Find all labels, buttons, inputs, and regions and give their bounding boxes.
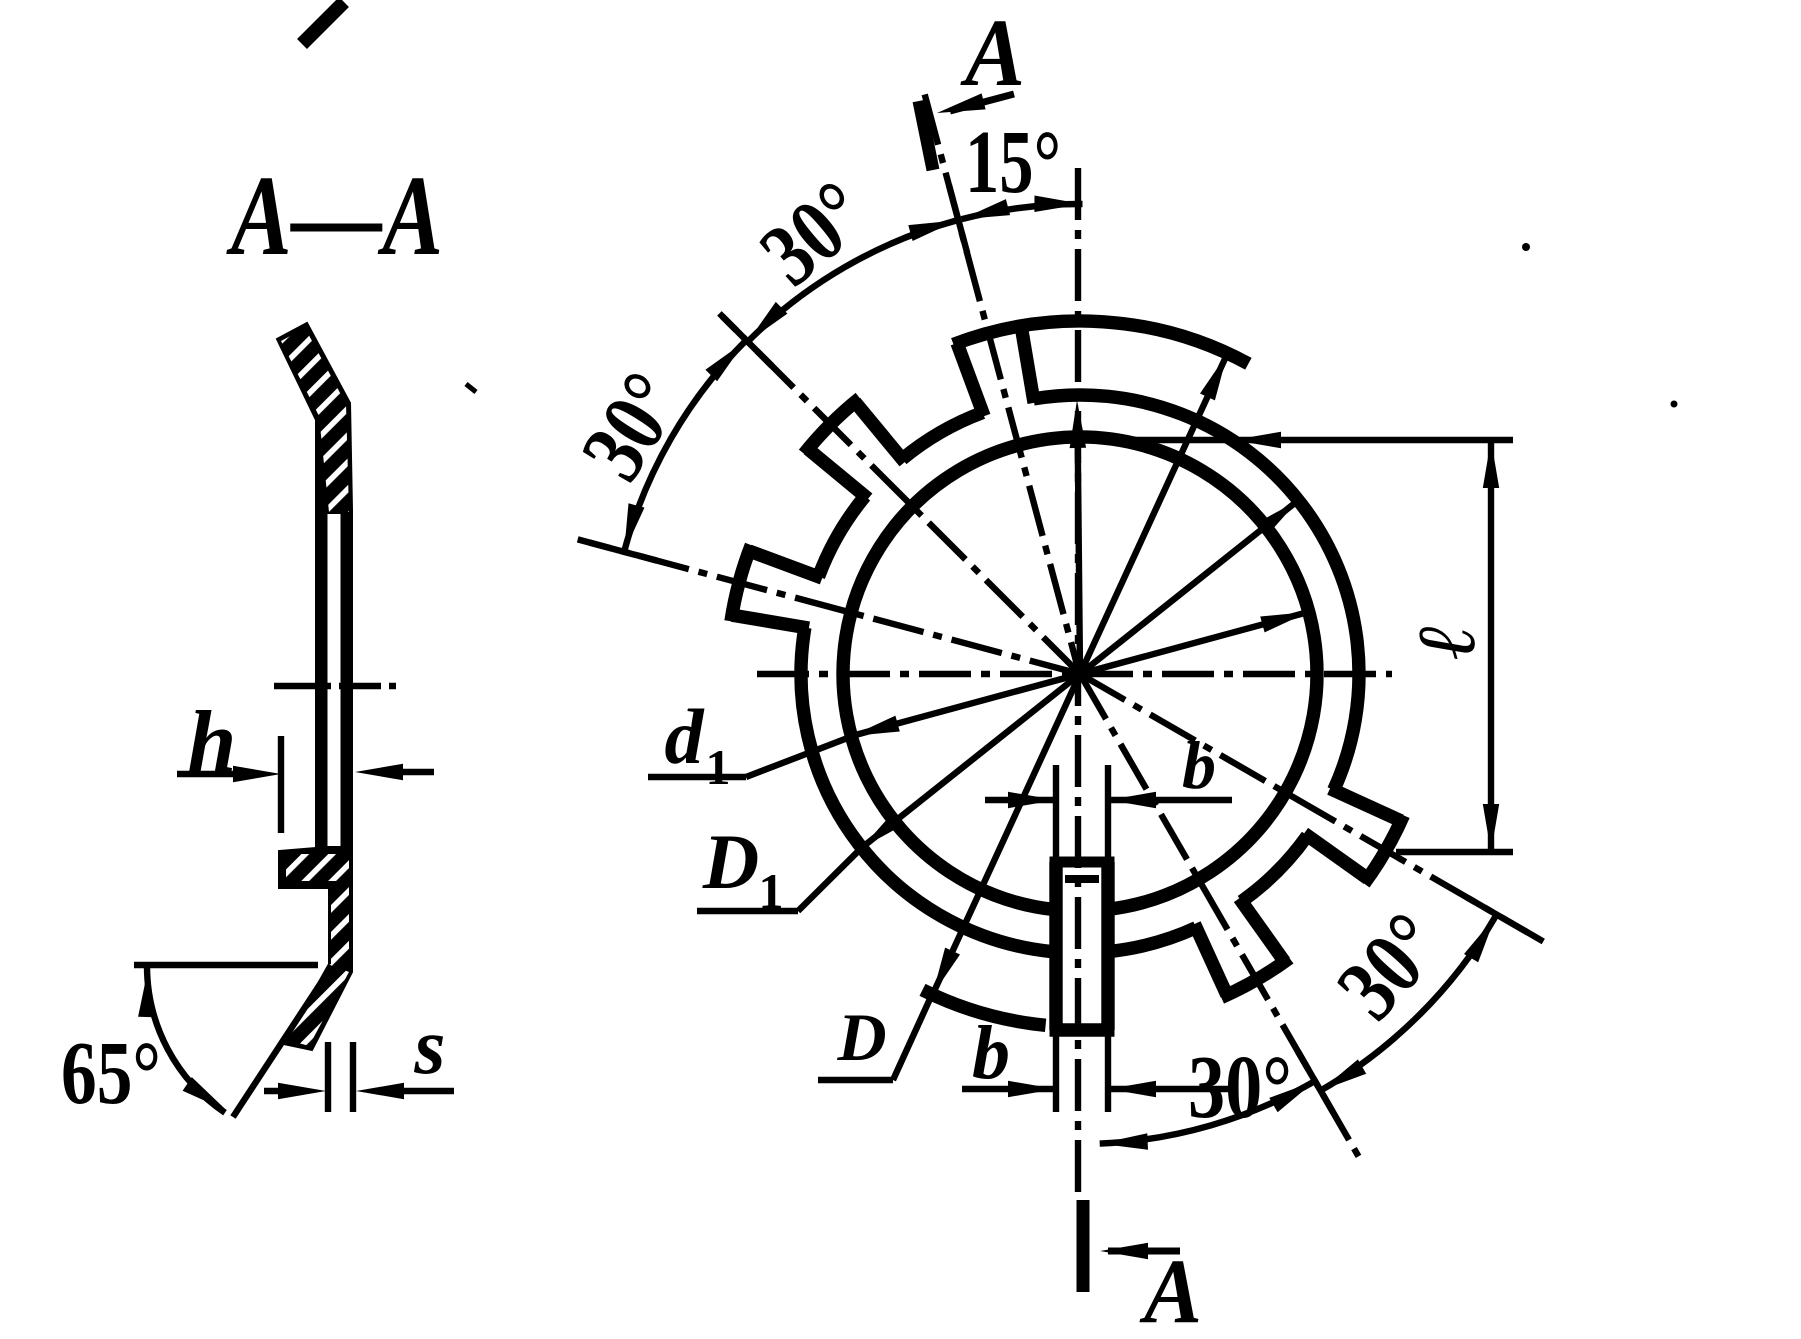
dimension s (325, 1042, 331, 1112)
15 deg dimension arc (962, 204, 1083, 219)
outer tab at 120 deg (1330, 789, 1401, 821)
tab centerline 120 deg (1080, 674, 1543, 942)
outer tab at -15 deg (957, 343, 984, 416)
tab centerline 45 deg (719, 313, 1080, 674)
svg-text:1: 1 (759, 863, 784, 919)
svg-text:A—A: A—A (226, 152, 443, 279)
svg-text:ℓ: ℓ (1401, 624, 1492, 659)
vertical centerline (1075, 168, 1081, 1192)
section view centerline (274, 683, 401, 689)
section body inner face gap (328, 514, 341, 846)
outer tab at 150 deg (1239, 898, 1284, 962)
tab centerline 150 deg (1080, 674, 1363, 1163)
phantom arc of tab-tip circle (bottom-left) (923, 990, 1046, 1025)
svg-text:s: s (413, 1003, 445, 1091)
30 deg dimension arc (upper left) (748, 220, 957, 341)
svg-text:D: D (836, 999, 886, 1075)
65 deg reference lines (134, 962, 318, 968)
svg-text:1: 1 (706, 739, 731, 795)
section plane line A-A (15 deg) (925, 94, 1080, 676)
svg-text:A: A (1139, 1240, 1202, 1339)
svg-text:30°: 30° (1188, 1038, 1292, 1137)
svg-text:D: D (702, 818, 759, 905)
section mark A (top) (919, 101, 933, 170)
svg-text:b: b (972, 1011, 1010, 1095)
scan speck 1 (1522, 243, 1530, 251)
30 deg dimension arc (bottom right) (1321, 917, 1496, 1091)
dimension b (upper, tab width) (1053, 765, 1059, 872)
65 deg dimension arc (147, 966, 225, 1113)
dimension b (lower, tab width) (1053, 1036, 1059, 1112)
tab centerline 75 deg (578, 539, 1080, 674)
30 deg dimension arc (left) (624, 341, 745, 551)
dimension line D (diameter over tabs) (933, 353, 1228, 994)
svg-text:b: b (1182, 727, 1216, 803)
dimension line D1 (outer ring diameter) (862, 500, 1299, 847)
outer tab at -45 deg (808, 449, 868, 499)
l dimension line (1488, 440, 1494, 852)
svg-text:h: h (188, 694, 237, 791)
bottom internal tab (bent lug) (1049, 862, 1062, 1030)
section mark A (bottom) (1077, 1200, 1090, 1292)
svg-text:15°: 15° (965, 113, 1061, 212)
l dimension top reference line (1048, 437, 1513, 443)
radial arrow to outer circle top (1078, 420, 1081, 672)
scan artifact (top left corner) (302, 2, 344, 44)
svg-text:65°: 65° (61, 1024, 161, 1123)
l dimension bottom reference line (1396, 849, 1513, 855)
inner circle (bore d1) (843, 437, 1317, 910)
dimension line d1 (bore diameter) (851, 612, 1308, 736)
outer tab at -75 deg (732, 615, 809, 628)
svg-text:A: A (960, 0, 1025, 106)
svg-text:d: d (665, 693, 705, 780)
horizontal centerline (757, 671, 1392, 677)
centerline tick crossings at dimension arcs (722, 316, 772, 366)
scan speck 3 (466, 384, 476, 392)
scan speck 2 (1671, 401, 1678, 408)
30 deg dimension arc (bottom) (1100, 1081, 1315, 1144)
outer circle (washer OD) (819, 496, 866, 577)
dimension h (278, 736, 284, 833)
